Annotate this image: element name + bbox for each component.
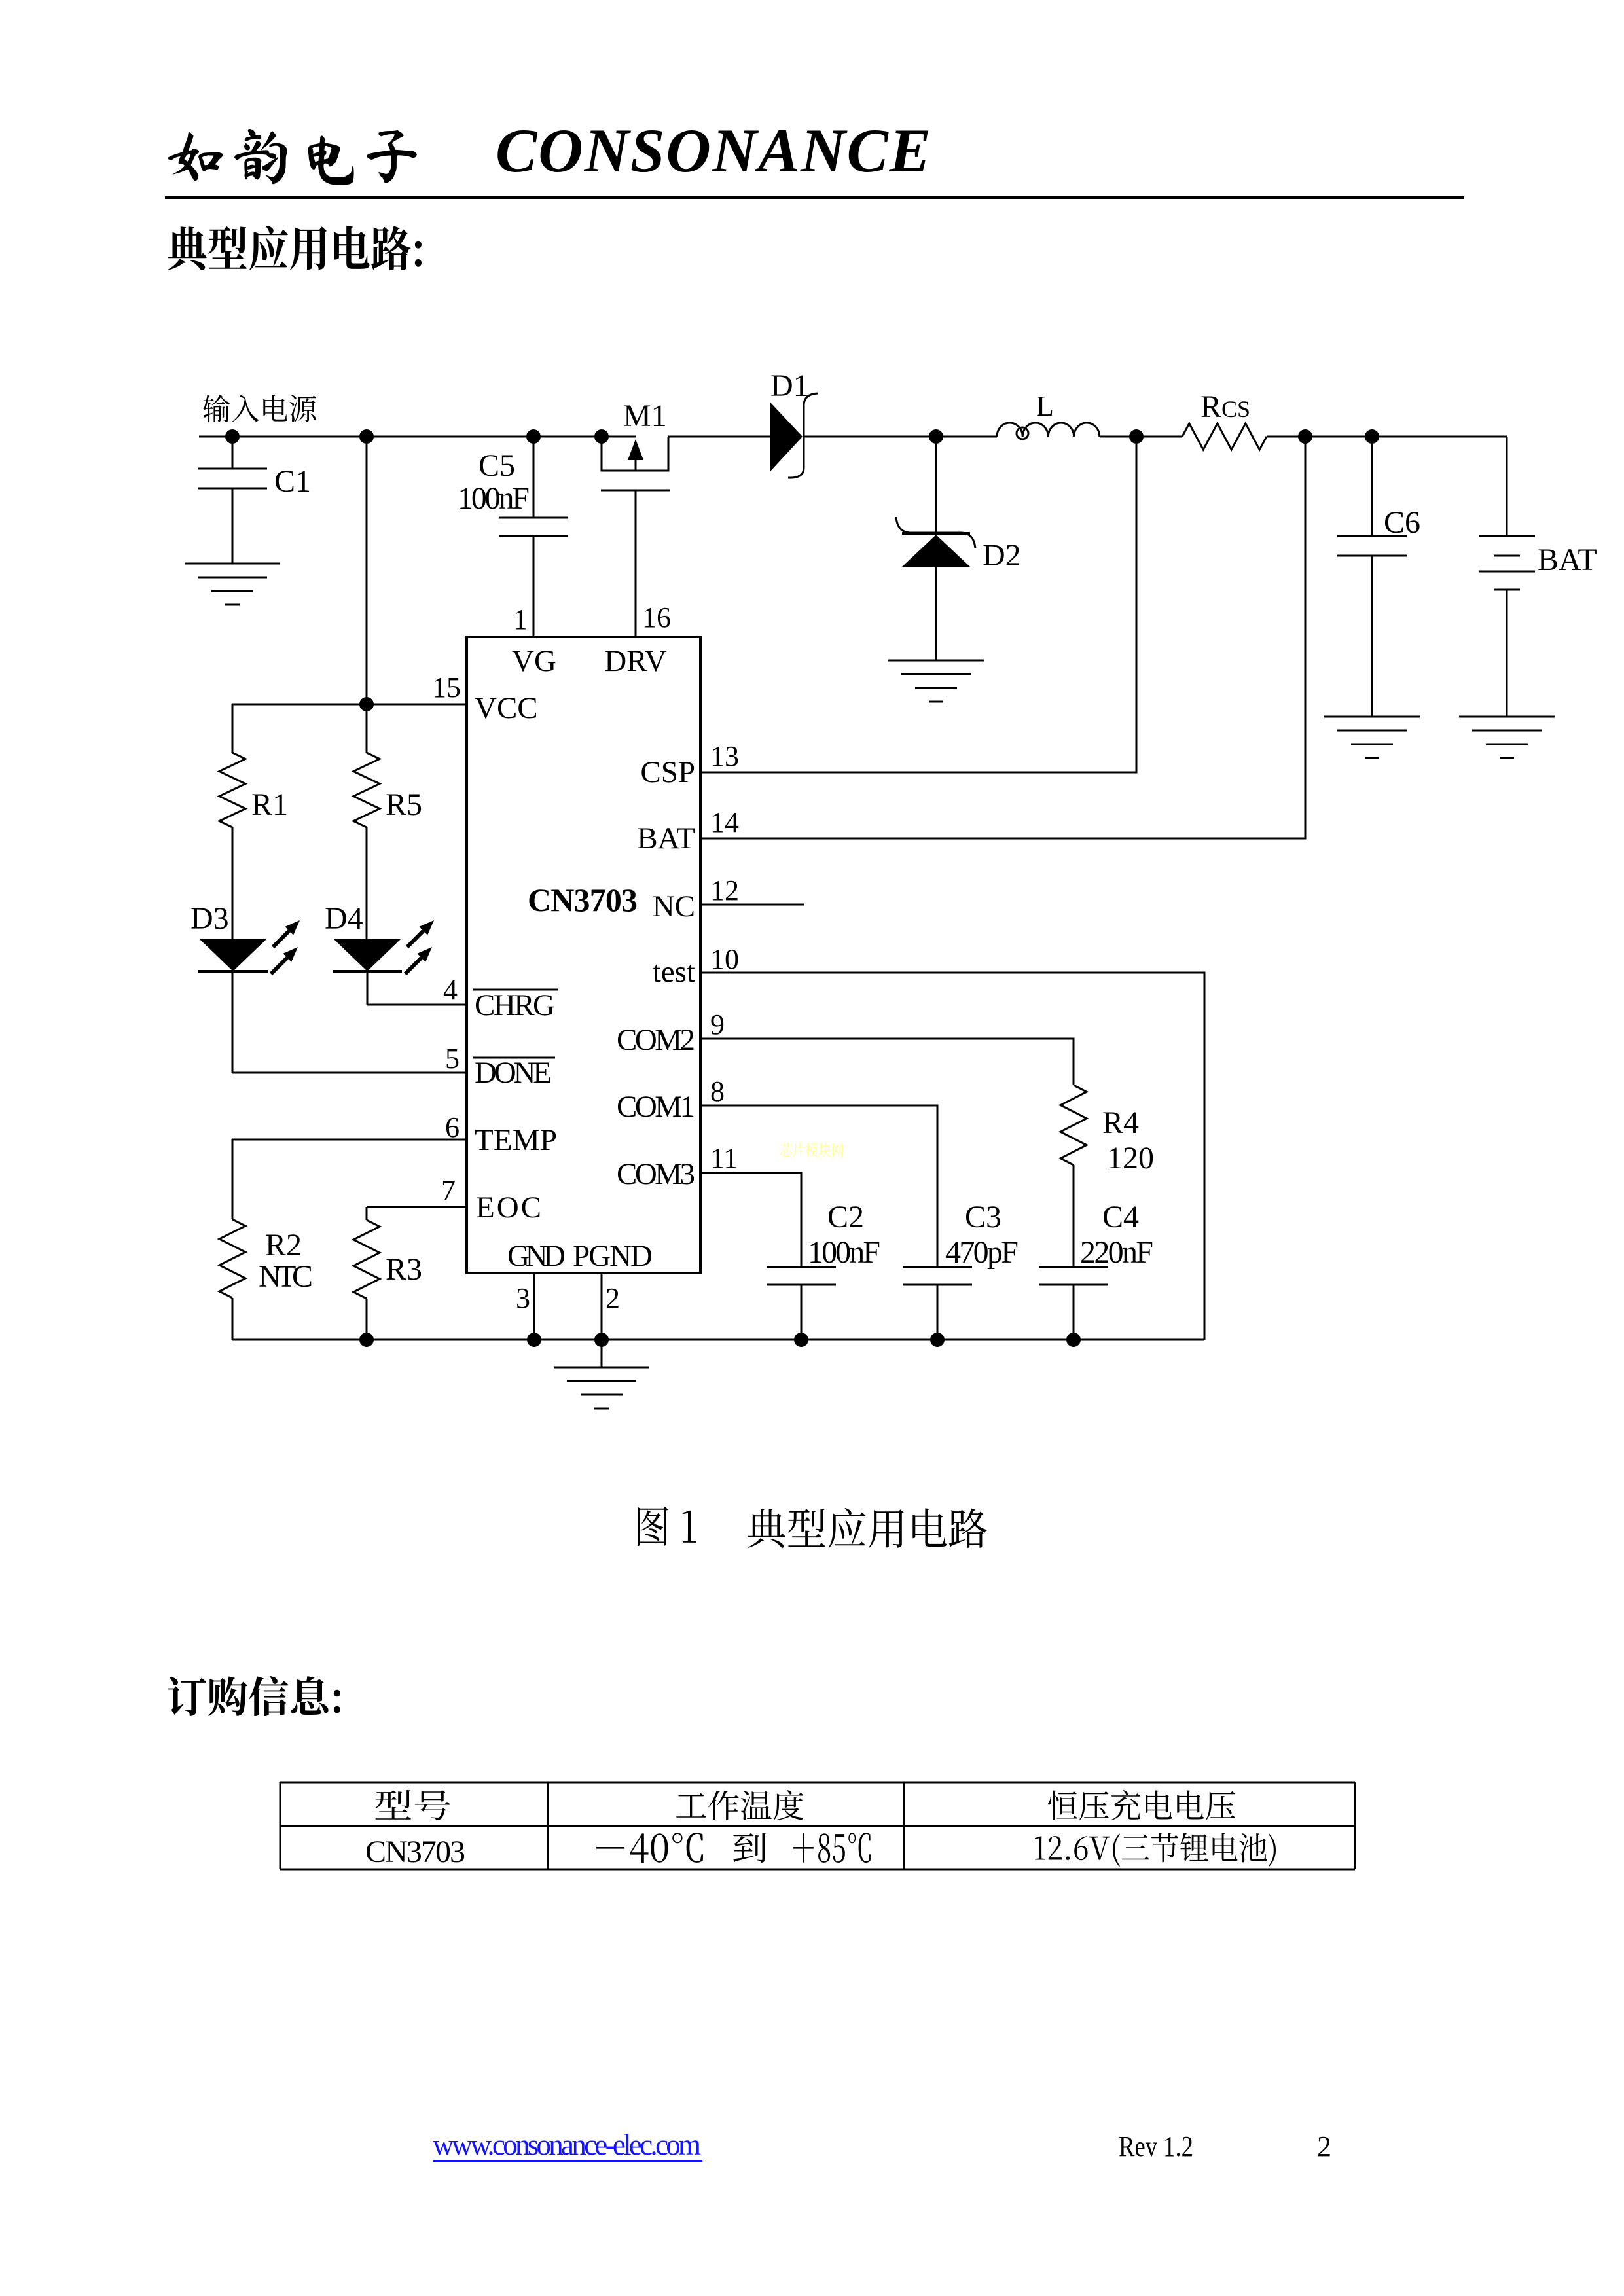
ground main — [554, 1340, 649, 1408]
inductor L — [997, 390, 1100, 439]
svg-text:DONE: DONE — [475, 1056, 552, 1090]
table header 恒压充电电压 — [1048, 1790, 1235, 1820]
svg-text:C4: C4 — [1102, 1200, 1139, 1234]
capacitor C2 — [767, 1200, 880, 1340]
svg-text:9: 9 — [710, 1009, 725, 1041]
svg-text:COM1: COM1 — [617, 1090, 695, 1124]
capacitor C4 — [1039, 1200, 1153, 1340]
table header 型号 — [375, 1790, 450, 1820]
svg-text:120: 120 — [1107, 1141, 1154, 1175]
table cell CN3703 — [365, 1835, 465, 1869]
pin 13 CSP — [640, 740, 739, 789]
svg-text:8: 8 — [710, 1075, 725, 1107]
svg-text:C1: C1 — [274, 464, 311, 499]
pin 16 DRV — [604, 601, 671, 678]
svg-text:R1: R1 — [251, 787, 288, 822]
svg-text:100nF: 100nF — [808, 1235, 880, 1270]
svg-text:PGND: PGND — [573, 1239, 653, 1273]
svg-text:D2: D2 — [983, 538, 1021, 573]
svg-text:EOC: EOC — [476, 1191, 541, 1225]
diode D2 (schottky freewheel) — [896, 437, 1021, 660]
node 输入电源 input label — [203, 395, 316, 422]
ground under C6 — [1324, 717, 1420, 758]
LED D4 — [325, 901, 434, 974]
junction on ground rail x=560 — [359, 1333, 374, 1347]
svg-text:CN3703: CN3703 — [528, 882, 638, 918]
pin 11 COM3 — [617, 1142, 801, 1267]
svg-text:test: test — [653, 955, 695, 989]
wire CSP feedback — [700, 437, 1136, 772]
junction on top rail x=560 — [359, 429, 374, 444]
junction on top rail x=1736 — [1129, 429, 1144, 444]
svg-text:CSP: CSP — [640, 755, 695, 789]
svg-text:BAT: BAT — [637, 821, 695, 855]
svg-text:VCC: VCC — [475, 691, 538, 725]
svg-text:2: 2 — [1317, 2130, 1331, 2162]
svg-text:14: 14 — [710, 806, 739, 838]
svg-text:BAT: BAT — [1538, 543, 1597, 577]
header rule — [165, 196, 1464, 199]
svg-text:VG: VG — [512, 644, 556, 678]
ordering table — [280, 1782, 1355, 1869]
junction on ground rail x=1640 — [1066, 1333, 1081, 1347]
svg-text:C2: C2 — [827, 1200, 864, 1234]
junction on ground rail x=919 — [594, 1333, 609, 1347]
battery BAT — [1479, 437, 1597, 717]
resistor R1 — [219, 704, 288, 939]
junction on ground rail x=1432 — [930, 1333, 945, 1347]
footer page number — [1317, 2130, 1331, 2162]
svg-text:220nF: 220nF — [1080, 1235, 1153, 1270]
svg-text:R4: R4 — [1102, 1105, 1139, 1140]
resistor R3 — [353, 1220, 422, 1340]
svg-text:C5: C5 — [478, 448, 515, 483]
svg-text:16: 16 — [642, 601, 671, 634]
svg-text:COM2: COM2 — [617, 1023, 695, 1057]
wire bottom ground rail — [232, 1339, 1204, 1341]
diode D1 (schottky) — [770, 368, 818, 478]
pin 10 test — [653, 943, 1204, 1340]
svg-text:D4: D4 — [325, 901, 363, 936]
pin 4 CHRG wire — [367, 971, 558, 1022]
table header 工作温度 — [676, 1790, 804, 1820]
svg-text:15: 15 — [432, 672, 461, 704]
svg-text:CONSONANCE: CONSONANCE — [496, 116, 931, 185]
pin 15 VCC — [432, 672, 538, 725]
svg-text:CN3703: CN3703 — [365, 1835, 465, 1869]
svg-text:12: 12 — [710, 874, 739, 906]
junction on top rail x=2096 — [1365, 429, 1379, 444]
svg-text:2: 2 — [605, 1282, 620, 1314]
IC U1 CN3703 box — [467, 637, 700, 1273]
pin 1 VG — [512, 603, 556, 678]
pin 14 BAT — [637, 806, 739, 855]
junction on top rail x=1994 — [1298, 429, 1312, 444]
svg-text:NC: NC — [653, 889, 695, 924]
pin 5 DONE wire — [232, 971, 555, 1090]
heading 订购信息: — [168, 1676, 340, 1716]
wire VCC — [232, 697, 467, 711]
svg-text:NTC: NTC — [259, 1259, 313, 1294]
svg-text:R3: R3 — [386, 1252, 422, 1287]
pins GND PGND — [507, 1239, 653, 1340]
svg-text:10: 10 — [710, 943, 739, 975]
capacitor C6 — [1337, 437, 1420, 717]
svg-text:L: L — [1036, 390, 1054, 422]
svg-text:3: 3 — [516, 1282, 530, 1314]
junction on top rail x=1430 — [929, 429, 943, 444]
LED D3 — [190, 901, 300, 974]
watermark 芯片模块网 — [780, 1143, 843, 1157]
svg-text:7: 7 — [441, 1174, 456, 1206]
svg-text:D3: D3 — [190, 901, 229, 936]
ground under BAT — [1459, 717, 1555, 758]
svg-text:C3: C3 — [965, 1200, 1001, 1234]
capacitor C5 — [458, 437, 568, 637]
transistor M1 (PMOS) — [601, 399, 670, 637]
pin 6 TEMP wire — [232, 1111, 557, 1219]
footer rev — [1119, 2130, 1193, 2162]
resistor R5 — [353, 704, 422, 939]
svg-text:C6: C6 — [1384, 505, 1420, 540]
svg-text:Rev 1.2: Rev 1.2 — [1119, 2130, 1193, 2162]
svg-text:6: 6 — [445, 1111, 460, 1143]
wire VCC drop — [366, 437, 368, 704]
svg-text:COM3: COM3 — [617, 1157, 695, 1191]
pin 9 COM2 — [617, 1009, 1074, 1085]
ground under D2 — [888, 660, 984, 702]
logo 如韵电子 — [168, 129, 417, 185]
capacitor C3 — [903, 1200, 1019, 1340]
pin 12 NC — [653, 874, 804, 924]
wire top rail — [199, 436, 1507, 438]
svg-text:470pF: 470pF — [945, 1235, 1019, 1270]
svg-text:TEMP: TEMP — [475, 1123, 557, 1157]
svg-text:D1: D1 — [770, 368, 809, 403]
junction on top rail x=919 — [594, 429, 609, 444]
junction on ground rail x=816 — [527, 1333, 541, 1347]
junction on ground rail x=1224 — [794, 1333, 808, 1347]
resistor Rcs — [1182, 389, 1267, 450]
pin 8 COM1 — [617, 1075, 937, 1267]
svg-text:13: 13 — [710, 740, 739, 772]
wire BAT feedback — [700, 437, 1305, 838]
caption 图1 典型应用电路 — [638, 1507, 987, 1548]
footer link — [433, 2128, 702, 2162]
svg-text:R5: R5 — [386, 787, 422, 822]
junction on top rail x=815 — [526, 429, 541, 444]
svg-text:DRV: DRV — [604, 644, 667, 678]
table cell 12.6V — [1035, 1833, 1276, 1867]
logo CONSONANCE — [496, 116, 931, 185]
svg-text:100nF: 100nF — [458, 481, 530, 516]
svg-text:CHRG: CHRG — [475, 988, 555, 1022]
svg-text:11: 11 — [710, 1142, 738, 1174]
resistor R2 NTC — [219, 1219, 313, 1340]
pin 7 EOC wire — [367, 1174, 541, 1225]
svg-text:1: 1 — [513, 603, 528, 636]
ground under C1 — [185, 564, 280, 605]
svg-text:www.consonance-elec.com: www.consonance-elec.com — [433, 2128, 701, 2161]
heading 典型应用电路: — [168, 226, 422, 270]
svg-text:GND: GND — [507, 1239, 566, 1273]
junction on top rail x=355 — [225, 429, 240, 444]
capacitor C1 — [198, 437, 311, 564]
svg-text:5: 5 — [445, 1043, 460, 1075]
svg-text:M1: M1 — [623, 399, 667, 433]
svg-text:4: 4 — [443, 974, 458, 1006]
resistor R4 — [1060, 1085, 1154, 1267]
table cell -40C to +85C — [596, 1833, 871, 1863]
svg-text:R2: R2 — [265, 1228, 302, 1263]
